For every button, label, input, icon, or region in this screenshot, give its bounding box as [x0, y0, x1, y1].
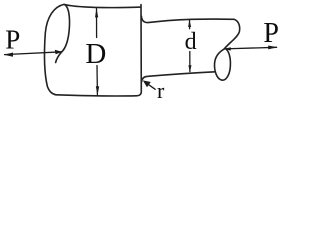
svg-text:P: P	[263, 18, 279, 49]
wire step vertical face and bottom line of large cylinder	[56, 5, 141, 96]
svg-text:d: d	[185, 29, 197, 55]
arrowhead small at right end face pointing left	[224, 47, 231, 50]
svg-text:r: r	[157, 78, 165, 103]
leader line for fillet r	[146, 83, 155, 90]
wire small shaft bottom line with fillet r	[141, 72, 215, 83]
wire small shaft top line with fillet	[141, 16, 234, 22]
svg-text:P: P	[5, 24, 20, 54]
wire left force line	[5, 52, 62, 55]
dimension D line lower segment	[96, 66, 98, 95]
arrowhead small at left end face pointing right	[55, 50, 63, 55]
arrowhead dimension D bottom pointing down	[96, 86, 99, 95]
arrowhead left force P pointing left	[4, 53, 13, 57]
node right end ellipse face	[215, 49, 231, 80]
node right end tail arc	[224, 19, 239, 49]
dimension d line lower segment	[189, 52, 191, 72]
arrowhead dimension d bottom pointing down	[188, 65, 191, 72]
dimension d line upper segment	[189, 20, 191, 29]
arrowhead fillet leader pointing up-left	[143, 80, 151, 87]
dimension D line upper segment	[96, 9, 98, 38]
node left break outer arc	[45, 4, 64, 94]
wire large cylinder top line	[64, 4, 141, 7]
wire right force line	[224, 47, 276, 49]
arrowhead dimension D top pointing up	[95, 8, 98, 17]
svg-text:D: D	[85, 38, 106, 70]
arrowhead right force P pointing right	[268, 46, 277, 50]
arrowhead dimension d top pointing up	[188, 20, 191, 27]
node left break inner end-face arc	[56, 5, 70, 63]
